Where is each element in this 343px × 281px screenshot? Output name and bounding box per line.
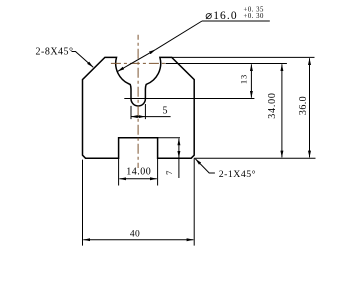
centerline horizontal bbox=[111, 62, 166, 64]
svg-text:5: 5 bbox=[163, 106, 168, 117]
dim 14.00 bbox=[119, 178, 156, 180]
extension 14 left bbox=[118, 158, 120, 185]
extension top edge right bbox=[172, 56, 315, 58]
extension 40 left bbox=[82, 160, 84, 246]
svg-text:14.00: 14.00 bbox=[126, 167, 151, 178]
extension 40 right bbox=[193, 158, 195, 245]
extension center level bbox=[166, 63, 287, 65]
dim 7 bbox=[178, 139, 180, 158]
svg-text:36.0: 36.0 bbox=[298, 96, 309, 115]
dim 40 bbox=[83, 239, 193, 241]
centerline vertical bbox=[137, 35, 139, 168]
svg-text:⌀16.0: ⌀16.0 bbox=[205, 10, 238, 22]
dim 34.00 bbox=[281, 64, 283, 157]
extension 5 left bbox=[130, 106, 132, 119]
extension 7 top bbox=[158, 137, 180, 139]
dim 36.0 bbox=[309, 58, 311, 157]
extension 14 right bbox=[157, 158, 159, 185]
svg-text:40: 40 bbox=[130, 229, 140, 239]
svg-text:34.00: 34.00 bbox=[267, 92, 278, 119]
svg-text:2-8X45°: 2-8X45° bbox=[36, 47, 74, 58]
svg-text:13: 13 bbox=[238, 74, 248, 84]
dim 5 bbox=[131, 116, 145, 118]
part outline bbox=[83, 57, 195, 158]
svg-text:7: 7 bbox=[164, 171, 174, 175]
extension slot-bottom center level bbox=[124, 98, 254, 100]
dim 13 bbox=[250, 64, 252, 97]
svg-text:2-1X45°: 2-1X45° bbox=[219, 169, 256, 180]
svg-text:+0. 30: +0. 30 bbox=[244, 13, 265, 20]
extension bottom face right bbox=[194, 157, 315, 159]
leader 2-1X45 bbox=[195, 159, 215, 173]
leader dia16 diameter line bbox=[118, 50, 156, 72]
extension 5 right bbox=[144, 104, 146, 119]
